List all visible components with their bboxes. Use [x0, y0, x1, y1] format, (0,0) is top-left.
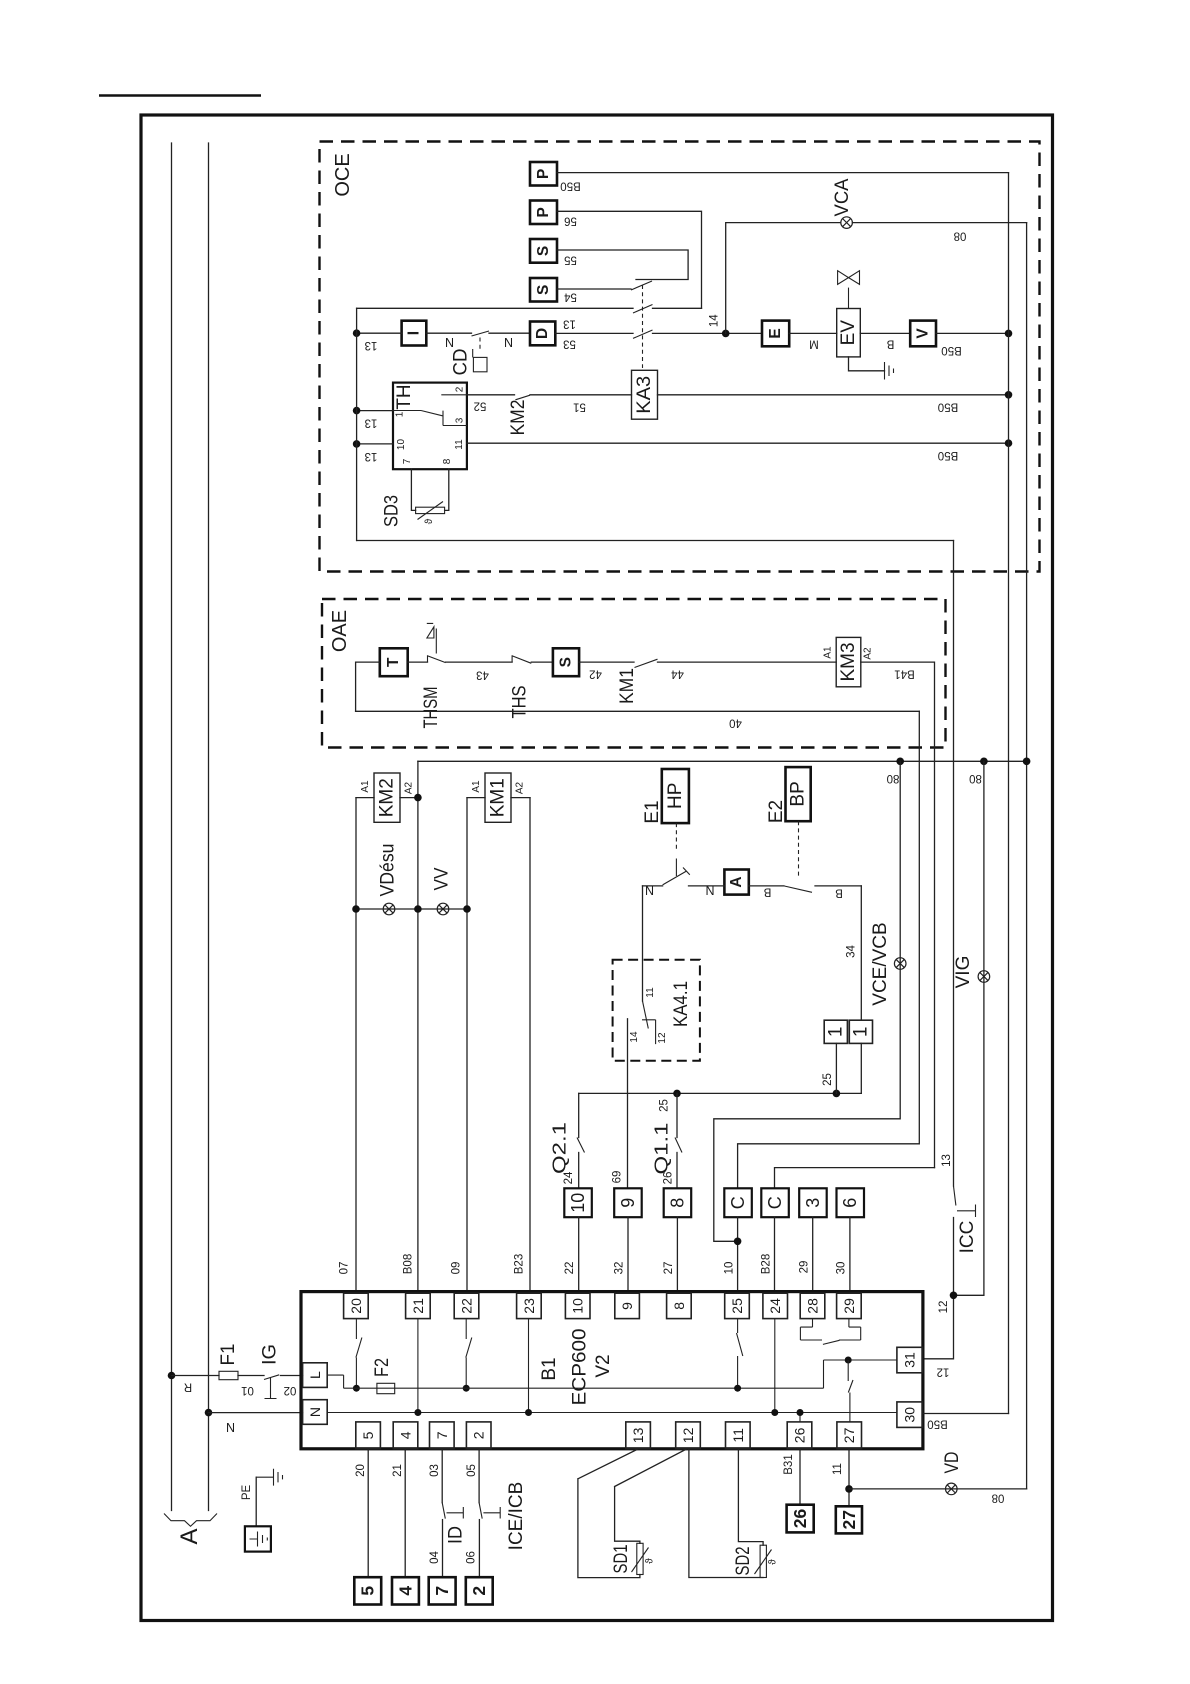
svg-text:C: C [765, 1196, 785, 1209]
relay coil KA3 [632, 370, 658, 419]
plug 26 [787, 1505, 814, 1533]
terminal 20 [344, 1293, 369, 1318]
svg-text:9: 9 [618, 1198, 638, 1208]
svg-text:02: 02 [284, 1384, 297, 1396]
svg-text:12: 12 [938, 1301, 950, 1314]
wire 25 [579, 1092, 862, 1094]
wire ICC vertical [953, 541, 955, 1187]
svg-text:26: 26 [792, 1427, 808, 1443]
contact HP [663, 868, 690, 885]
svg-text:27: 27 [841, 1427, 857, 1443]
contact KM1 [635, 659, 658, 667]
internal contact 27 [848, 1360, 853, 1422]
svg-text:ϑ: ϑ [424, 518, 435, 524]
svg-text:25: 25 [659, 1099, 671, 1112]
wire 08 [418, 760, 1027, 762]
wire OAE left rail [356, 662, 380, 711]
terminal 8b [667, 1293, 692, 1318]
svg-text:Q2.1: Q2.1 [550, 1122, 570, 1174]
connector A [724, 870, 748, 895]
plug 27 [836, 1506, 862, 1533]
connector V [910, 321, 936, 347]
terminal 31 [897, 1347, 923, 1373]
svg-text:80: 80 [969, 772, 982, 784]
fuse F1 [219, 1371, 238, 1379]
svg-text:24: 24 [563, 1171, 575, 1184]
svg-text:08: 08 [954, 230, 967, 242]
svg-text:THSM: THSM [421, 687, 442, 729]
terminal 12 [676, 1422, 701, 1449]
svg-text:27: 27 [839, 1510, 859, 1529]
svg-text:VDésu: VDésu [378, 844, 399, 897]
svg-text:KA4.1: KA4.1 [671, 981, 692, 1027]
wire B08 vertical [417, 761, 419, 1291]
wire 27 [676, 1217, 678, 1291]
wire to KA4.1 pin11 [642, 886, 644, 1001]
svg-text:01: 01 [241, 1384, 254, 1396]
svg-text:N: N [226, 1421, 235, 1435]
wire KM2 A1 [356, 797, 374, 799]
svg-text:B50: B50 [927, 1418, 947, 1430]
svg-text:11: 11 [832, 1463, 844, 1475]
svg-text:55: 55 [564, 253, 577, 265]
wire t21 internal [417, 1319, 419, 1413]
thermistor SD1 [637, 1543, 643, 1574]
wire 80 bottom [849, 1488, 1027, 1490]
link BP contact [798, 821, 800, 878]
wire 09 vertical [466, 798, 468, 1292]
wire 43 [446, 661, 512, 663]
svg-text:B: B [835, 887, 843, 899]
svg-text:B41: B41 [894, 668, 914, 680]
wire 29 [812, 1217, 814, 1291]
svg-text:KM1: KM1 [488, 778, 509, 817]
wire SD2 bottom [689, 1449, 763, 1578]
svg-text:1: 1 [825, 1027, 846, 1038]
svg-text:9: 9 [619, 1302, 635, 1310]
svg-text:TH: TH [394, 384, 415, 409]
svg-text:08: 08 [992, 1492, 1005, 1504]
wire PE [255, 1477, 257, 1526]
node 08/VIG [980, 758, 988, 766]
contact THS [512, 655, 531, 663]
svg-text:06: 06 [466, 1551, 478, 1564]
svg-text:20: 20 [355, 1464, 367, 1477]
dashed box OCE [320, 142, 1040, 572]
svg-text:25: 25 [822, 1073, 834, 1086]
contact Q1.1 [676, 1093, 678, 1137]
svg-text:A2: A2 [404, 781, 415, 794]
svg-text:P: P [535, 169, 552, 179]
connector C1 [724, 1188, 752, 1217]
svg-text:VCE/VCB: VCE/VCB [870, 922, 891, 1005]
pressure switch HP [662, 769, 689, 823]
terminal 1 left [824, 1020, 847, 1043]
svg-text:4: 4 [395, 1586, 415, 1596]
wire 05 ext [478, 1449, 480, 1503]
wire B41 [861, 662, 935, 1168]
wire TH pin1 [357, 410, 393, 412]
svg-text:09: 09 [451, 1262, 463, 1275]
svg-text:B50: B50 [560, 180, 580, 192]
svg-text:F2: F2 [372, 1358, 393, 1377]
svg-text:THS: THS [510, 686, 531, 719]
svg-text:B: B [886, 338, 894, 350]
svg-text:ECP600: ECP600 [570, 1329, 591, 1406]
svg-text:SD2: SD2 [733, 1547, 754, 1576]
wire KM1 A2 [511, 797, 530, 799]
svg-text:11: 11 [454, 439, 465, 450]
border frame [141, 115, 1053, 1621]
wire 44 [658, 661, 837, 663]
wire 07 vertical [355, 798, 357, 1292]
wire N segment [643, 885, 663, 887]
node 08/80 [1023, 758, 1031, 766]
terminal 24 [763, 1293, 788, 1318]
svg-text:E: E [767, 328, 784, 338]
svg-text:5: 5 [360, 1431, 376, 1439]
valve symbol [848, 288, 850, 309]
svg-text:I: I [406, 331, 423, 335]
connector 3 [799, 1188, 827, 1217]
svg-text:27: 27 [663, 1262, 675, 1275]
wire L to bus [327, 1375, 343, 1388]
wire 30 [849, 1217, 851, 1291]
svg-text:10: 10 [568, 1193, 588, 1213]
terminal 28 [800, 1293, 825, 1318]
svg-text:10: 10 [570, 1298, 586, 1314]
node B50/53 [1005, 330, 1013, 338]
terminal 2 [466, 1422, 491, 1449]
terminal 9b [615, 1293, 640, 1318]
lamp VCE/VCB [894, 958, 906, 970]
svg-text:04: 04 [429, 1551, 441, 1564]
connector C2 [761, 1188, 789, 1217]
wire 42 [579, 661, 634, 663]
wire 21 ext [404, 1449, 406, 1577]
svg-text:KM2: KM2 [508, 400, 529, 436]
svg-text:B28: B28 [761, 1254, 773, 1274]
svg-text:05: 05 [466, 1464, 478, 1477]
wire I-CD [426, 332, 471, 334]
ground PE symbol [256, 1469, 282, 1486]
svg-text:31: 31 [902, 1352, 918, 1368]
svg-text:P: P [535, 207, 552, 217]
svg-text:53: 53 [563, 338, 576, 350]
contact KM2 [515, 395, 530, 400]
svg-text:M: M [809, 338, 819, 350]
wire 11 ext [848, 1449, 850, 1507]
svg-text:F1: F1 [218, 1344, 239, 1366]
svg-text:24: 24 [767, 1298, 783, 1314]
svg-text:ICC: ICC [957, 1221, 978, 1254]
terminal N [303, 1400, 328, 1425]
dashed box OAE [322, 599, 946, 748]
wire KM2 A2 [400, 797, 418, 799]
node 08/VCE [896, 758, 904, 766]
svg-text:A1: A1 [823, 646, 834, 659]
svg-text:A1: A1 [471, 780, 482, 793]
wire EV-V [860, 332, 910, 334]
mechanical link KA3 contacts [642, 285, 644, 368]
wire R feed [172, 1375, 220, 1377]
svg-text:N: N [504, 336, 513, 350]
svg-text:12: 12 [657, 1032, 668, 1044]
svg-text:2: 2 [469, 1586, 489, 1596]
wire KM1 A1 [467, 797, 485, 799]
svg-text:KM3: KM3 [838, 642, 859, 681]
lamp VV [437, 903, 449, 915]
wire OCE return [357, 540, 954, 542]
switch ICC [954, 1186, 976, 1217]
wire SD1 bottom [578, 1449, 640, 1578]
svg-text:13: 13 [365, 417, 378, 429]
connector E [762, 321, 789, 347]
internal contact 22 [465, 1319, 467, 1339]
contact ICE/ICB [479, 1503, 500, 1519]
wire B28 [774, 1217, 776, 1291]
terminal 30 [897, 1402, 923, 1428]
wire SD2 top [738, 1449, 763, 1545]
wire 04 ext [442, 1520, 444, 1578]
svg-text:V2: V2 [593, 1354, 614, 1377]
node 13/I [353, 329, 361, 337]
connector D [530, 322, 555, 346]
svg-text:KM1: KM1 [617, 668, 638, 704]
solenoid EV [837, 309, 861, 357]
svg-text:A: A [728, 876, 745, 887]
wire VCE/VCB [714, 761, 900, 1241]
terminal 27 [837, 1422, 862, 1449]
svg-text:52: 52 [474, 400, 487, 412]
svg-text:KA3: KA3 [634, 376, 655, 414]
svg-text:EV: EV [838, 320, 859, 346]
svg-text:26: 26 [663, 1172, 675, 1185]
pressure switch BP [786, 767, 811, 821]
thermistor SD3 [416, 507, 445, 513]
contact Q2.1 [578, 1093, 580, 1137]
svg-text:1: 1 [850, 1027, 871, 1038]
svg-text:PE: PE [241, 1485, 253, 1501]
wire 22 [578, 1217, 580, 1291]
svg-text:8: 8 [671, 1302, 687, 1310]
wire CD-D [489, 332, 530, 334]
wire 80 top [852, 222, 1026, 224]
internal contact 28/29 [800, 1319, 860, 1340]
svg-text:IG: IG [260, 1344, 281, 1365]
svg-text:20: 20 [348, 1298, 364, 1314]
wire E-EV [789, 332, 837, 334]
contact THSM [428, 655, 446, 662]
svg-text:B50: B50 [938, 449, 958, 461]
wire 32 [627, 1217, 629, 1291]
wire lamp row [356, 908, 467, 910]
svg-text:C: C [728, 1196, 748, 1209]
svg-text:B23: B23 [514, 1254, 526, 1274]
svg-text:A2: A2 [515, 781, 526, 794]
wire THS-S [531, 661, 553, 663]
svg-text:N: N [445, 336, 454, 350]
svg-text:11: 11 [730, 1428, 746, 1443]
svg-text:B08: B08 [403, 1254, 415, 1274]
svg-text:N: N [307, 1407, 323, 1417]
svg-text:54: 54 [564, 290, 577, 302]
svg-text:8: 8 [442, 458, 453, 464]
wire 12 [922, 1218, 953, 1359]
connector 10 [564, 1188, 592, 1217]
wire t26 internal [799, 1413, 801, 1422]
svg-text:32: 32 [614, 1262, 626, 1275]
terminal 25 [725, 1293, 750, 1318]
svg-text:42: 42 [589, 668, 602, 680]
wire IG-L [281, 1375, 303, 1377]
svg-text:23: 23 [521, 1298, 537, 1314]
svg-text:2: 2 [455, 386, 466, 392]
svg-text:VD: VD [942, 1452, 963, 1474]
svg-text:5: 5 [358, 1586, 378, 1596]
terminal 23 [517, 1293, 542, 1318]
wires TH pins 7,8 [411, 469, 448, 510]
plug 2 [466, 1577, 493, 1604]
svg-text:25: 25 [729, 1298, 745, 1314]
connector 6 [837, 1188, 865, 1217]
wire KA4.1 pin14 / 69 [627, 1019, 629, 1189]
contact ID [442, 1503, 463, 1519]
wire V-B50 [936, 332, 1009, 334]
wire TH pin11 B50 [467, 442, 1009, 444]
svg-text:7: 7 [432, 1586, 452, 1596]
svg-text:10: 10 [396, 439, 407, 451]
wire 54 from S4 [557, 288, 631, 290]
svg-text:29: 29 [799, 1261, 811, 1274]
wire 13 upper [357, 307, 633, 309]
svg-text:BP: BP [788, 781, 809, 806]
svg-text:HP: HP [665, 783, 686, 809]
svg-text:80: 80 [887, 772, 900, 784]
svg-text:S: S [558, 657, 575, 667]
internal contact 25 [737, 1319, 743, 1389]
svg-text:A2: A2 [863, 647, 874, 660]
contact KA3-1 [631, 281, 652, 290]
lamp VCA [841, 217, 853, 229]
svg-text:A1: A1 [360, 780, 371, 793]
svg-text:26: 26 [790, 1509, 810, 1529]
terminal PE box [245, 1526, 271, 1551]
wire B23 vertical [529, 798, 531, 1292]
wire 20 ext [367, 1449, 369, 1577]
svg-text:30: 30 [836, 1262, 848, 1275]
contact KA3-3 [633, 330, 653, 338]
connector S4 [530, 278, 557, 302]
svg-text:13: 13 [365, 450, 378, 462]
svg-text:ICE/ICB: ICE/ICB [506, 1482, 527, 1551]
terminal 13 [626, 1422, 651, 1449]
svg-text:1: 1 [395, 411, 406, 417]
wire 13 to I [357, 332, 402, 334]
thermostat TH [393, 383, 467, 470]
wire 10 [737, 1217, 739, 1291]
svg-text:N: N [645, 884, 654, 898]
svg-text:3: 3 [455, 417, 466, 423]
svg-text:E2: E2 [766, 800, 787, 823]
svg-text:69: 69 [612, 1171, 624, 1184]
wire 40 to C [738, 711, 920, 1188]
connector T [380, 648, 408, 676]
link HP contact [675, 823, 677, 850]
contact KA4.1 [643, 1001, 649, 1029]
plug 5 [354, 1577, 381, 1604]
wire t23 internal [528, 1319, 530, 1413]
wire 55 from S3 [557, 250, 688, 280]
terminal L [303, 1363, 328, 1388]
relay box KA4.1 [613, 960, 700, 1061]
svg-text:R: R [184, 1381, 192, 1393]
svg-text:V: V [915, 328, 932, 339]
svg-text:2: 2 [471, 1431, 487, 1439]
svg-text:7: 7 [434, 1431, 450, 1439]
svg-text:7: 7 [402, 458, 413, 464]
svg-text:VIG: VIG [953, 956, 974, 989]
svg-text:SD3: SD3 [382, 495, 403, 527]
svg-text:21: 21 [392, 1464, 404, 1477]
contact KA3-2 [633, 305, 653, 314]
terminal 4 [393, 1422, 418, 1449]
svg-text:34: 34 [846, 945, 858, 958]
svg-text:13: 13 [563, 318, 576, 330]
wire 40 rail [356, 710, 920, 712]
terminal 7 [430, 1422, 455, 1449]
svg-text:13: 13 [365, 339, 378, 351]
brace A [164, 1514, 217, 1527]
wire 53 D to E [555, 332, 633, 334]
svg-text:CD: CD [451, 349, 472, 376]
svg-text:22: 22 [459, 1298, 475, 1314]
terminal 26 [787, 1422, 812, 1449]
connector I [402, 321, 427, 346]
lamp VD [946, 1483, 958, 1495]
plug 7 [429, 1577, 456, 1604]
wire OCE left rail [356, 308, 358, 540]
connector P1 [530, 162, 557, 186]
wire 14 up [726, 223, 841, 334]
lamp VIG [978, 971, 990, 983]
terminal 22 [454, 1293, 479, 1318]
terminal 5 [356, 1422, 381, 1449]
svg-text:B1: B1 [539, 1357, 560, 1380]
svg-text:3: 3 [803, 1198, 823, 1208]
connector P2 [530, 201, 557, 225]
contactor coil KM3 [836, 637, 861, 686]
wire N feed [209, 1412, 303, 1414]
internal N bus [327, 1412, 897, 1414]
svg-text:E1: E1 [642, 800, 663, 823]
svg-text:T: T [385, 657, 402, 667]
svg-text:51: 51 [573, 401, 586, 413]
svg-text:OCE: OCE [332, 153, 354, 196]
wire B31 ext [799, 1449, 801, 1505]
contact CD [472, 331, 490, 336]
connector 9 [614, 1188, 642, 1217]
contactor coil KM1 [485, 773, 511, 822]
wires 1-boxes to 25 [836, 1043, 861, 1093]
svg-text:B50: B50 [938, 401, 958, 413]
svg-text:8: 8 [667, 1198, 687, 1208]
wire F1-IG [238, 1375, 264, 1377]
connector 8 [664, 1188, 692, 1217]
ground EV [849, 357, 885, 371]
svg-text:VCA: VCA [832, 178, 853, 216]
svg-text:21: 21 [410, 1298, 426, 1314]
